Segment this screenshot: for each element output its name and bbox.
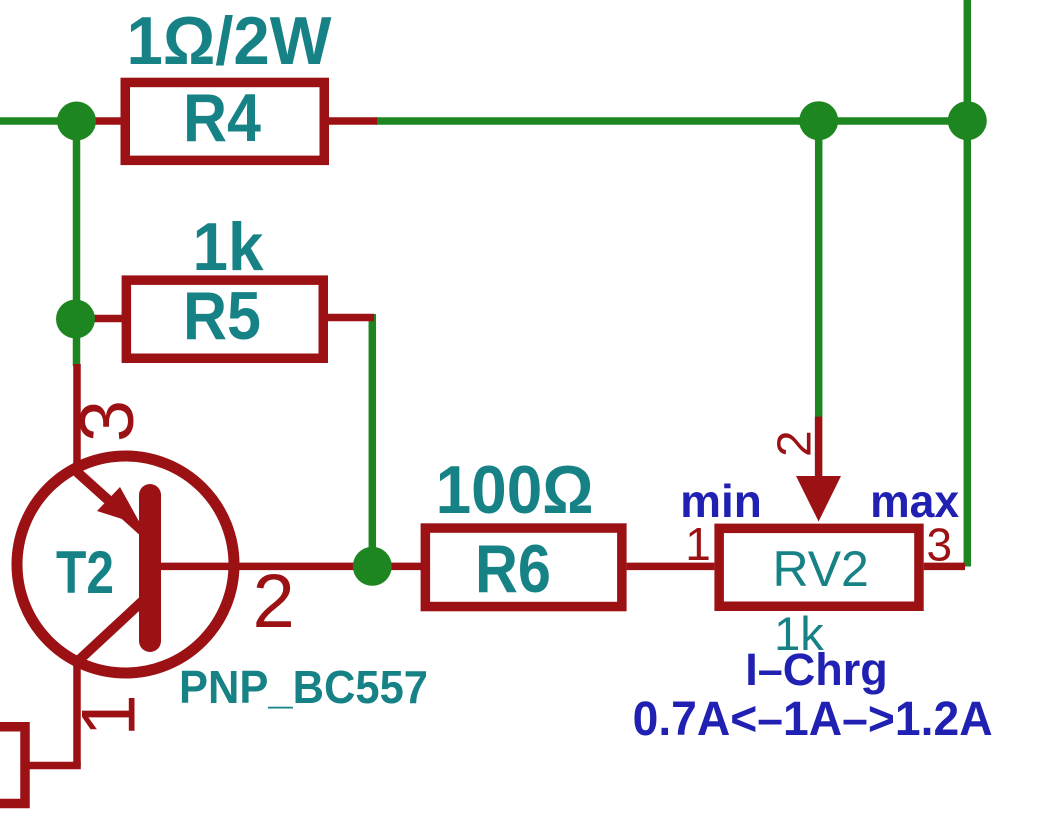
wire: vertical to RV2 wiper xyxy=(815,121,823,417)
wire: top horizontal left segment xyxy=(0,117,82,125)
resistor R6 body xyxy=(425,528,621,607)
svg-text:R5: R5 xyxy=(183,278,261,354)
svg-text:3: 3 xyxy=(927,519,953,571)
wire: red stub left of R4 xyxy=(80,117,121,125)
junction node right bus xyxy=(948,101,987,140)
svg-text:1: 1 xyxy=(66,694,151,736)
svg-text:PNP_BC557: PNP_BC557 xyxy=(179,661,428,713)
junction node A xyxy=(57,102,96,141)
wire: right vertical bus xyxy=(964,0,972,567)
wire: red stub left of R5 xyxy=(80,315,122,323)
wire: T2 pin3 vertical xyxy=(73,364,81,473)
resistor partial body bottom-left xyxy=(0,727,25,804)
svg-text:2: 2 xyxy=(769,430,822,457)
svg-text:2: 2 xyxy=(253,559,295,644)
transistor T2 circle xyxy=(17,456,234,673)
svg-text:100Ω: 100Ω xyxy=(436,452,594,528)
wire: T2 pin1 horizontal to partial resistor xyxy=(28,762,81,770)
wire: R6 to RV2 pin1 xyxy=(627,563,715,571)
resistor R4 body xyxy=(125,82,324,160)
resistor R5 body xyxy=(126,280,323,358)
svg-text:0.7A<–1A–>1.2A: 0.7A<–1A–>1.2A xyxy=(633,693,993,746)
pin number 2 of RV2 xyxy=(769,430,822,457)
pin number 1 of T2 xyxy=(66,694,151,736)
wire: RV2 pin2 vertical xyxy=(815,417,823,479)
wire: T2 base to R6 xyxy=(161,563,421,571)
svg-text:R6: R6 xyxy=(475,531,551,607)
svg-text:T2: T2 xyxy=(56,539,114,606)
junction node at R5 xyxy=(56,300,95,339)
transistor T2 emitter diagonal xyxy=(77,472,146,534)
wire: RV2 pin3 stub xyxy=(924,563,965,571)
svg-text:I–Chrg: I–Chrg xyxy=(745,644,888,695)
transistor T2 collector diagonal xyxy=(78,595,149,661)
svg-text:1k: 1k xyxy=(193,209,264,285)
pin number 3 of T2 xyxy=(65,400,150,442)
wire: red stub right of R4 xyxy=(329,117,377,125)
svg-text:3: 3 xyxy=(65,400,150,442)
transistor T2 base bar xyxy=(139,495,161,641)
potentiometer RV2 wiper arrow xyxy=(796,476,841,522)
junction node B at R6 xyxy=(353,547,392,586)
svg-text:1Ω/2W: 1Ω/2W xyxy=(127,3,333,79)
svg-text:1: 1 xyxy=(685,518,711,570)
svg-text:RV2: RV2 xyxy=(773,541,869,597)
wire: left vertical bus xyxy=(73,121,81,366)
potentiometer RV2 body xyxy=(719,528,919,606)
wire: middle vertical from R5 to node B xyxy=(369,314,377,566)
transistor T2 emitter arrow xyxy=(97,487,141,525)
wire: T2 pin1 vertical xyxy=(73,658,81,766)
svg-text:R4: R4 xyxy=(183,80,261,156)
junction node at wiper column xyxy=(799,101,838,140)
wire: top horizontal right segment xyxy=(376,117,967,125)
wire: red stub right of R5 xyxy=(328,314,374,322)
